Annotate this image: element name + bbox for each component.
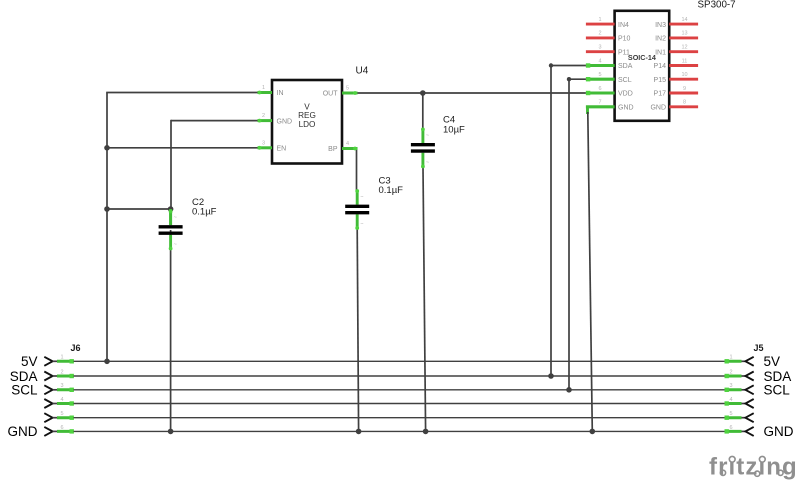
svg-text:1: 1 [730,355,733,361]
U4 inner label [298,103,316,129]
SOIC pin 5 SCL [586,72,632,84]
svg-text:5: 5 [346,86,349,92]
J5 pin 2 [742,375,746,377]
wire SDA bus [74,375,725,377]
wire row5 bus [74,417,725,419]
svg-text:2: 2 [262,113,265,119]
svg-text:IN1: IN1 [655,49,666,56]
svg-text:P11: P11 [618,49,630,56]
U4 pin 5 OUT [323,86,358,98]
capacitor C4 plates [411,143,435,146]
svg-text:V: V [304,103,310,112]
svg-text:6: 6 [598,86,601,92]
SOIC pin 11 P14 [654,58,699,70]
SOIC pin 2 P10 [586,31,631,43]
svg-text:8: 8 [683,100,686,106]
J6 pin 6 [44,427,52,436]
svg-text:3: 3 [262,140,265,146]
svg-text:5V: 5V [764,354,781,369]
wire SOIC GND vertical [588,112,593,431]
J6 pin 2 [44,372,52,381]
connector J5 [725,355,754,436]
wire GND bus [74,430,725,432]
SOIC pin 7 GND [586,100,634,112]
node SDA bend [549,63,553,67]
svg-text:5: 5 [730,411,733,417]
J6 pin 1 [44,357,52,366]
wire C3 to GND bus [357,228,358,431]
svg-text:J5: J5 [754,343,764,353]
svg-text:OUT: OUT [323,91,339,98]
svg-text:SDA: SDA [10,369,38,384]
IC U-SOIC14 SP300-7 body [615,11,670,121]
wire BP to C3 [356,148,358,191]
U4 pin 1 IN [258,85,284,97]
svg-text:REG: REG [298,111,316,120]
svg-text:IN2: IN2 [655,36,666,43]
wire SDA vertical [550,66,552,377]
wire SCL vertical [568,79,570,390]
SOIC pin 1 IN4 [586,17,629,29]
svg-text:2: 2 [730,369,733,375]
svg-text:SCL: SCL [618,77,632,84]
wire SCL from SOIC [569,78,586,80]
svg-text:13: 13 [681,31,687,37]
svg-text:GND: GND [8,424,38,439]
svg-text:3: 3 [61,383,64,389]
SOIC pin 9 P17 [654,86,699,98]
node SOIC GND junction [590,429,596,435]
SOIC pin 14 IN3 [655,17,698,29]
svg-text:IN: IN [277,90,284,97]
svg-text:6: 6 [61,425,64,431]
node branch junction left [104,206,110,212]
svg-text:EN: EN [277,146,287,153]
wire OUT junction down to C4 [422,93,424,130]
wire OUT to VDD [358,92,586,94]
svg-text:10: 10 [681,72,687,78]
wire IN to 5V vertical [106,93,108,362]
SOIC pin 4 SDA [586,58,633,70]
wire IN horizontal [106,92,258,94]
svg-text:SDA: SDA [618,63,633,70]
svg-text:IN3: IN3 [655,22,666,29]
node SCL junction [566,387,572,393]
svg-text:5V: 5V [21,354,38,369]
node C3 GND junction [356,429,362,435]
svg-text:12: 12 [681,45,687,51]
SOIC pin 10 P15 [654,72,699,84]
svg-text:14: 14 [681,17,687,23]
wire GND-reg horizontal [171,120,258,122]
svg-text:1: 1 [262,85,265,91]
svg-text:~: ~ [174,215,177,221]
svg-text:J6: J6 [71,343,81,353]
fritzing logo [709,454,798,481]
svg-text:6: 6 [730,425,733,431]
svg-text:GND: GND [277,118,293,125]
wire SDA from SOIC [551,65,586,67]
capacitor C2 plates [159,225,183,228]
svg-text:LDO: LDO [299,120,316,129]
svg-text:~: ~ [360,222,363,228]
wire row4 bus [74,403,725,405]
svg-text:SP300-7: SP300-7 [698,0,736,11]
svg-text:4: 4 [61,397,64,403]
svg-text:BP: BP [328,146,338,153]
J6 pin 5 [44,413,52,422]
svg-text:SOIC-14: SOIC-14 [628,53,656,62]
svg-text:VDD: VDD [618,91,633,98]
svg-text:GND: GND [764,424,794,439]
svg-text:10µF: 10µF [443,125,465,136]
J5 pin 1 [742,360,746,362]
wire GND-reg vertical [170,120,172,209]
capacitor C3 plates [345,205,369,208]
svg-text:1: 1 [598,17,601,23]
SOIC pin 6 VDD [586,86,633,98]
svg-text:P17: P17 [654,91,667,98]
svg-text:4: 4 [598,58,601,64]
SOIC pin 12 IN1 [655,45,698,57]
svg-text:2: 2 [61,369,64,375]
svg-text:4: 4 [346,141,349,147]
capacitor C3 leads [356,190,359,205]
node SDA junction [548,373,554,379]
node C2 GND junction [168,429,174,435]
svg-text:SCL: SCL [11,383,38,398]
U4 pin 3 EN [258,140,287,152]
node EN junction [104,145,110,151]
svg-text:3: 3 [730,383,733,389]
svg-text:0.1µF: 0.1µF [192,207,217,218]
wire C2 upper lead [169,209,172,225]
svg-text:5: 5 [598,72,601,78]
svg-text:11: 11 [682,58,688,64]
J5 pin 6 [742,430,746,432]
svg-text:IN4: IN4 [618,22,629,29]
U4 pin 2 GND [258,113,293,125]
SOIC pin 8 GND [650,100,698,112]
J5 pin 3 [742,389,746,391]
node OUT junction [420,90,426,96]
node C4 GND junction [423,429,429,435]
node C2 top junction [168,206,174,212]
SOIC pin 3 P11 [586,45,630,57]
wire SOIC GND corner [586,107,589,114]
wire C4 to GND bus [423,168,426,431]
node SCL bend [567,77,571,81]
capacitor C4 leads [421,128,424,143]
op-amp U4 voltage regulator body [272,80,342,164]
svg-text:~: ~ [426,160,429,166]
svg-text:3: 3 [598,45,601,51]
svg-text:2: 2 [598,31,601,37]
SOIC pin 13 IN2 [655,31,698,43]
svg-text:0.1µF: 0.1µF [379,185,404,196]
svg-text:GND: GND [650,105,666,112]
wire C2 branch [107,208,171,210]
wire SCL bus [74,389,725,391]
connector J6 [44,355,74,436]
svg-text:9: 9 [683,86,686,92]
svg-text:SCL: SCL [764,383,791,398]
svg-text:GND: GND [618,105,634,112]
svg-text:5: 5 [61,411,64,417]
svg-text:SDA: SDA [764,369,792,384]
wire C2 to GND bus [170,230,172,431]
node 5V junction at J6 [104,359,110,365]
capacitor C2 leads [169,210,172,225]
svg-text:4: 4 [730,397,733,403]
J6 pin 3 [44,385,52,394]
wire EN horizontal [107,147,258,149]
svg-text:P10: P10 [618,36,631,43]
svg-text:~: ~ [174,242,177,248]
svg-text:7: 7 [598,100,601,106]
svg-text:1: 1 [61,355,64,361]
U4 pin 4 BP [328,141,357,153]
svg-text:P14: P14 [654,63,667,70]
svg-text:P15: P15 [654,77,667,84]
svg-text:~: ~ [360,195,363,201]
svg-text:~: ~ [426,133,429,139]
J6 pin 4 [44,399,52,408]
svg-text:frıtzıng: frıtzıng [709,454,798,481]
svg-text:U4: U4 [356,66,369,77]
J5 pin 4 [742,403,746,405]
wire 5V bus [74,360,725,362]
J5 pin 5 [742,417,746,419]
